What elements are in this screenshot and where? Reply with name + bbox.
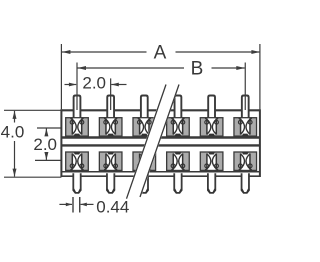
top pitch 2.0: arrows (65, 84, 77, 86)
body right edge (259, 109, 261, 177)
pin width 0.44: arrows (59, 203, 72, 205)
svg-text:0.44: 0.44 (96, 197, 129, 216)
row pitch 2.0: arrows (45, 129, 47, 135)
solder plate bottom line (61, 175, 261, 177)
solder plate top line (61, 171, 261, 173)
svg-text:B: B (191, 59, 204, 80)
bottom row top edge line (61, 144, 261, 146)
body left edge (60, 109, 62, 177)
pin column 5 (200, 96, 223, 193)
svg-text:4.0: 4.0 (1, 123, 25, 142)
top row bottom edge line (61, 136, 261, 138)
row pitch 2.0: leader lines (37, 127, 61, 129)
svg-text:2.0: 2.0 (33, 135, 57, 154)
height 4.0: leader lines (4, 109, 61, 111)
dimension A: extension lines (60, 44, 62, 109)
pin column 6 (234, 96, 257, 193)
height 4.0: dimension line with arrows (14, 111, 16, 123)
connector body: top edge line (61, 109, 261, 111)
dimension A: line with arrows (62, 51, 147, 53)
svg-text:2.0: 2.0 (82, 74, 106, 93)
pin width 0.44: extension dashes (72, 197, 74, 213)
svg-text:A: A (154, 43, 167, 64)
dimension B: extension lines through pins 1 and 6 (76, 63, 78, 111)
dimension B: line with arrows (78, 67, 185, 69)
top pitch 2.0: extension line through pin 2 (110, 78, 112, 110)
break band (white gap across body with two diagonal lines) (126, 84, 180, 199)
pin column 3 (133, 96, 156, 193)
pin column 2 (99, 96, 122, 193)
pin column 1 (66, 96, 89, 193)
pin column 4 (167, 96, 190, 193)
